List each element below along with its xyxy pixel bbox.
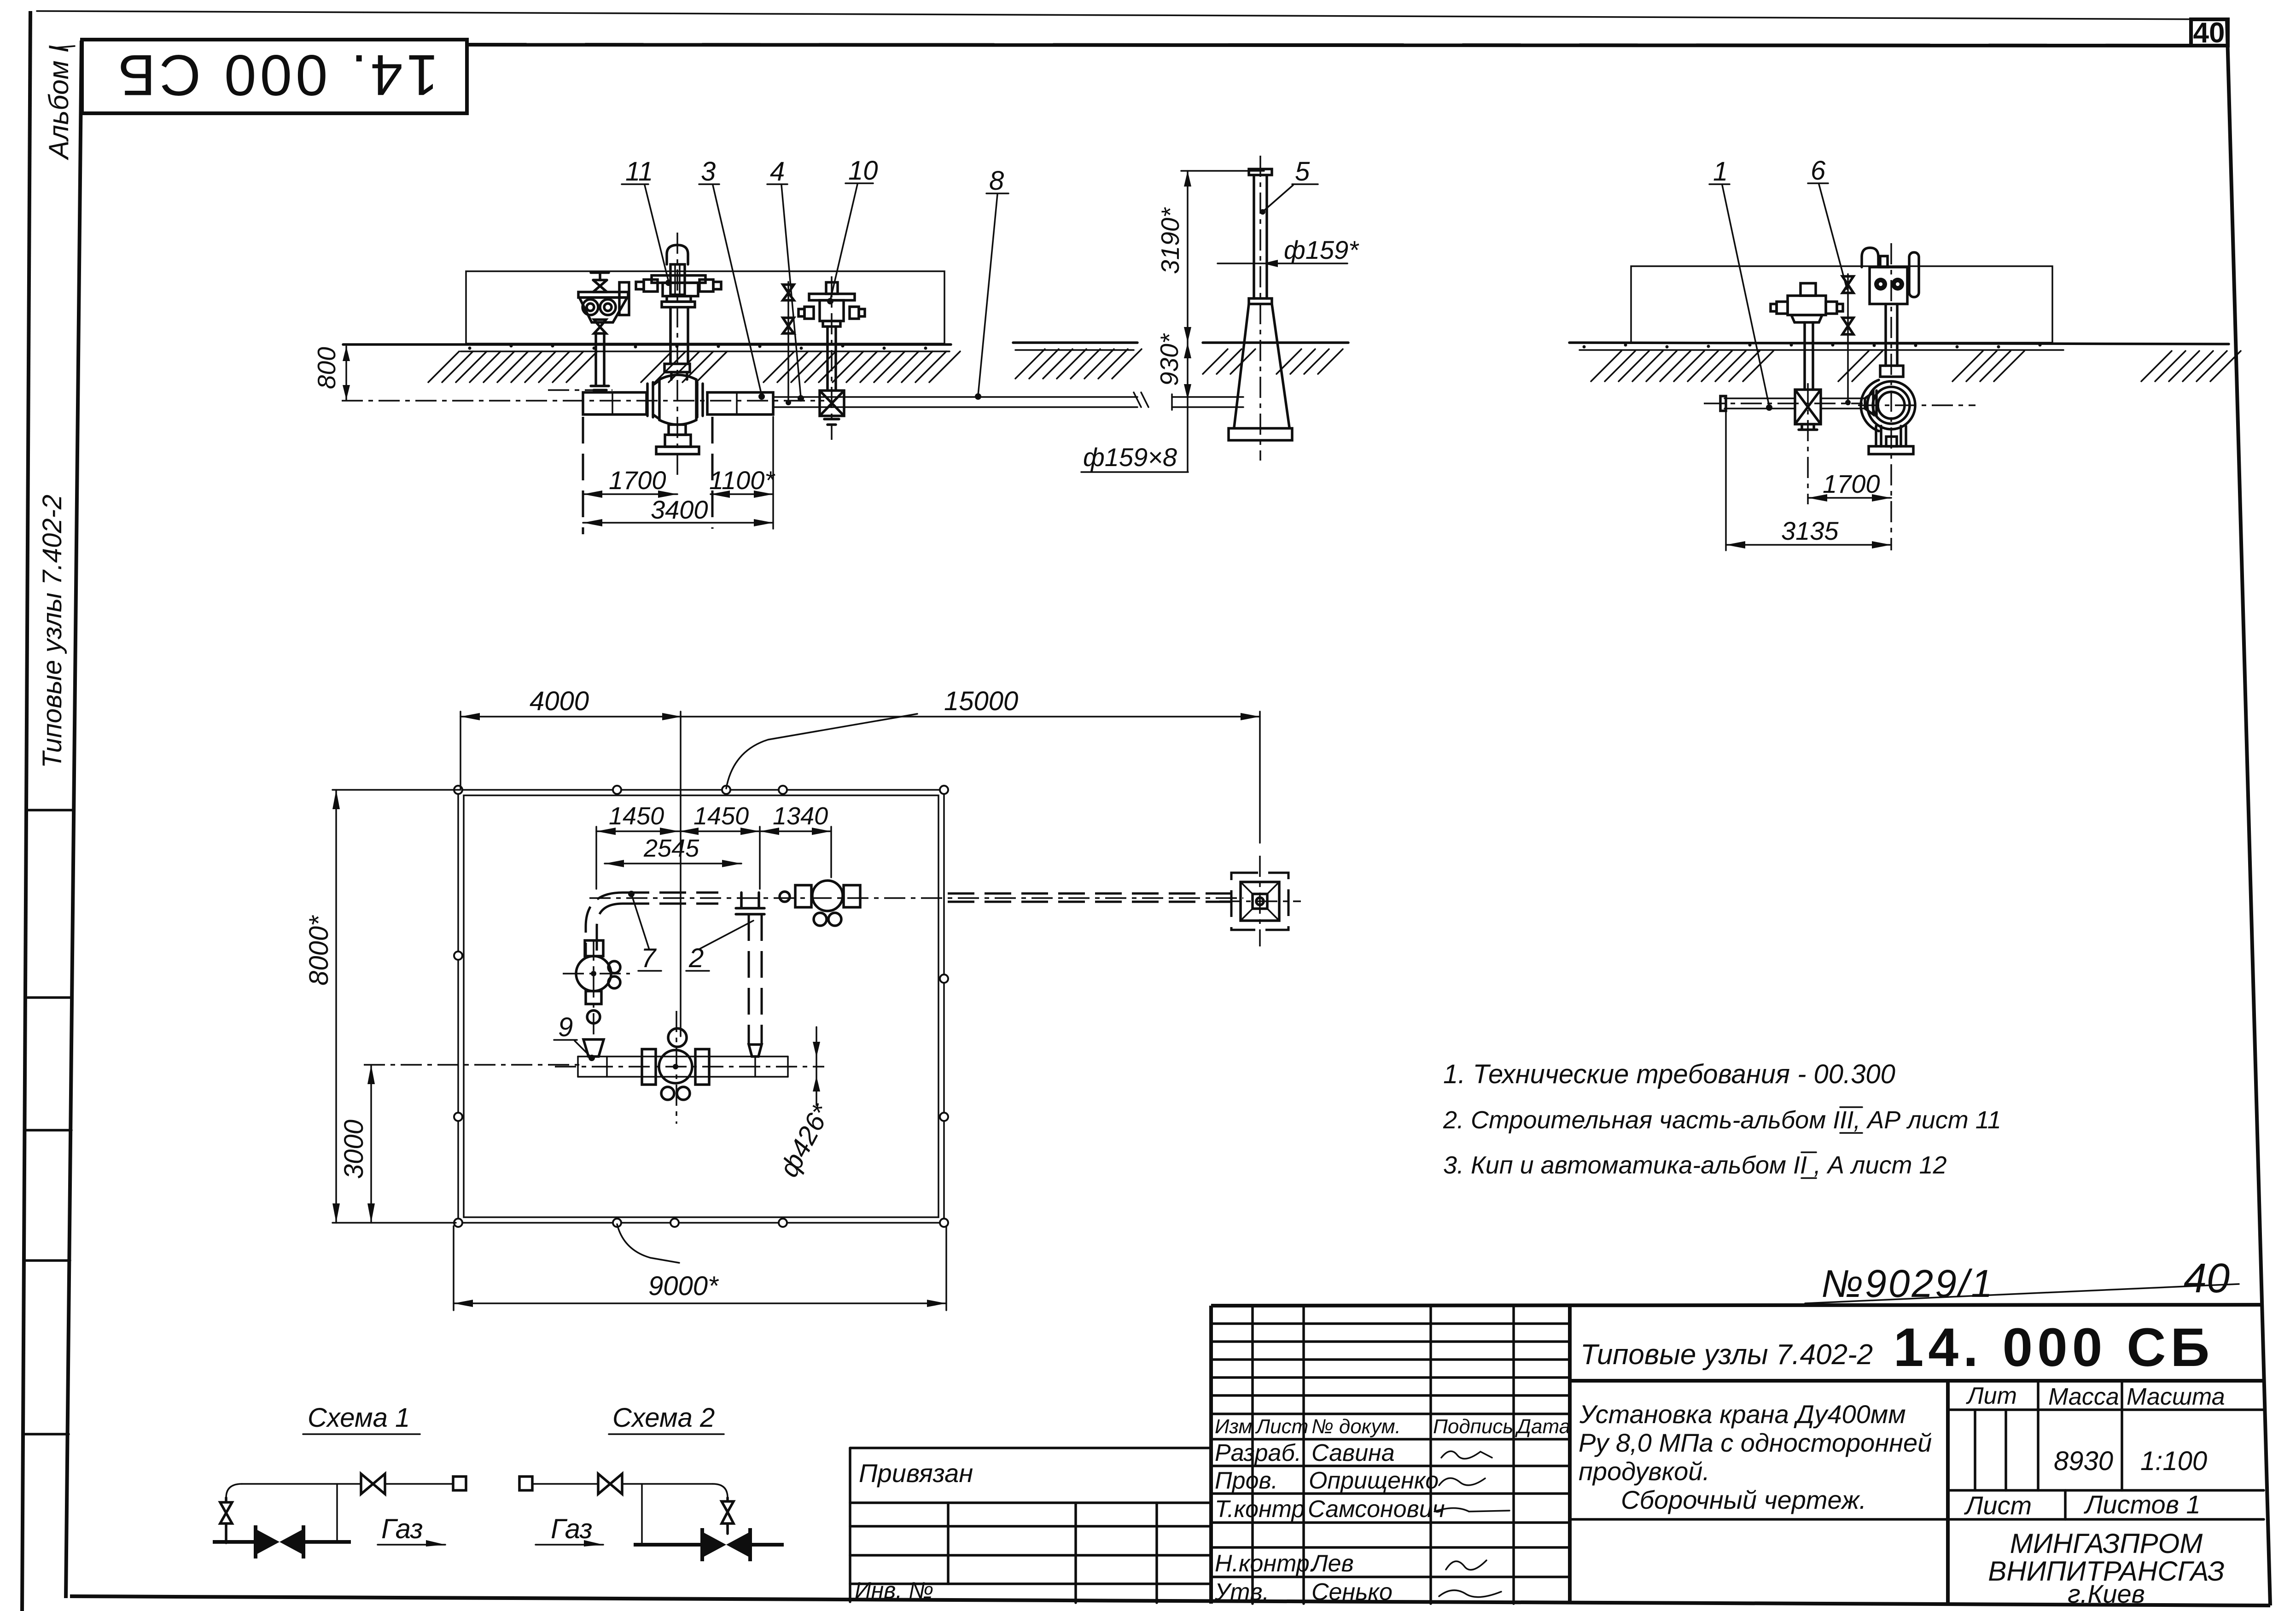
fence leader bottom	[617, 1224, 679, 1263]
centerline horizontal big valve	[1858, 404, 1975, 406]
dim 15000	[682, 716, 1260, 718]
central valve vertical centerline	[676, 1011, 677, 1124]
svg-text:Самсонович: Самсонович	[1308, 1496, 1445, 1523]
main line valve handwheel	[812, 881, 843, 911]
scheme2 bypass valve	[598, 1474, 622, 1494]
valve3 right body flange	[701, 384, 704, 416]
left unit stem pipe	[594, 333, 597, 385]
dimension 1100*	[711, 493, 773, 495]
big valve middle circle	[1873, 387, 1910, 424]
svg-text:1. Технические требования - 0: 1. Технические требования - 00.300	[1443, 1059, 1895, 1089]
ground hatch patch 2	[641, 351, 727, 382]
big valve crescent	[1861, 380, 1879, 431]
impulse line item4	[787, 282, 789, 403]
fence inner rectangle	[464, 795, 938, 1217]
item4 valve b	[783, 318, 794, 333]
main pipe left spool	[583, 392, 647, 414]
stack cap plate	[1249, 169, 1272, 175]
valve3 base plate	[656, 447, 699, 454]
left unit axis	[548, 389, 612, 391]
valve3 yoke bar	[652, 275, 705, 283]
left unit foot	[591, 386, 609, 390]
stack plan diagonals	[1241, 882, 1279, 921]
valve base plate	[1869, 446, 1913, 454]
STAMP BOX TOP LEFT	[82, 40, 467, 113]
svg-text:Н.контр.: Н.контр.	[1215, 1550, 1316, 1577]
valve3 neck	[670, 372, 673, 379]
svg-text:МИНГАЗПРОМ: МИНГАЗПРОМ	[2010, 1528, 2203, 1559]
witness line right of 1100	[772, 417, 774, 529]
svg-text:Оприщенко: Оприщенко	[1309, 1467, 1439, 1494]
witness line at cap level	[1181, 170, 1264, 172]
witness 4000 right / central valve axis	[680, 712, 682, 1036]
left unit side plate	[619, 282, 629, 315]
main line valve plan right body	[844, 885, 860, 907]
column to instrument	[1884, 304, 1887, 366]
dim f426 vertical	[816, 1027, 817, 1105]
slab texture dots left view	[468, 344, 927, 350]
svg-text:9000*: 9000*	[648, 1271, 719, 1301]
svg-text:2545: 2545	[643, 835, 699, 862]
title block left border	[1209, 1306, 1213, 1604]
instrument head	[1870, 267, 1907, 304]
valve3 drain body	[665, 435, 691, 447]
valve10 stem	[826, 327, 829, 389]
stack plan center square	[1253, 894, 1267, 909]
witness dashed left	[582, 417, 584, 534]
svg-text:Масса: Масса	[2048, 1383, 2119, 1410]
svg-text:г.Киев: г.Киев	[2068, 1579, 2145, 1608]
title block top border	[1211, 1305, 2262, 1306]
centerline vertical big valve	[1890, 243, 1892, 550]
svg-text:Инв. №: Инв. №	[855, 1577, 933, 1603]
valve10 right plug	[850, 307, 859, 319]
hatch patches right view	[1591, 351, 2241, 381]
svg-text:ф159*: ф159*	[1284, 235, 1359, 264]
valve3 splined stem	[670, 264, 685, 295]
hatch under ground stub	[1015, 349, 1142, 379]
scheme1 left vent valve	[220, 1498, 232, 1543]
svg-text:4: 4	[770, 157, 785, 187]
paper edge left line	[22, 11, 30, 1611]
pipe right segment	[1821, 397, 1865, 399]
svg-text:Альбом I: Альбом I	[43, 45, 74, 160]
scheme1 bypass top line	[242, 1483, 360, 1485]
valve stand legs	[1876, 426, 1906, 446]
SCHEMES	[213, 1403, 784, 1561]
cross tee body	[1795, 390, 1821, 424]
valve3 bonnet block	[663, 283, 698, 296]
building outline	[466, 271, 944, 344]
svg-text:Сенько: Сенько	[1311, 1579, 1393, 1605]
central valve plan handwheel	[659, 1050, 692, 1083]
privyazan sub-table lines	[850, 1501, 1211, 1504]
svg-text:Т.контр: Т.контр	[1215, 1496, 1305, 1523]
svg-text:Разраб.: Разраб.	[1215, 1440, 1301, 1466]
stack plan inner square	[1241, 882, 1279, 921]
margin cell divider 5	[25, 1433, 69, 1436]
svg-text:1450: 1450	[609, 802, 664, 830]
stack collar	[1249, 298, 1272, 304]
witness 15000 right	[1259, 712, 1261, 843]
svg-text:Установка крана Ду400мм: Установка крана Ду400мм	[1579, 1400, 1906, 1429]
left unit bracket	[578, 292, 628, 298]
valve10 top nut	[826, 282, 838, 294]
valve10 block	[820, 300, 844, 321]
VENT STACK VIEW	[1013, 156, 1359, 472]
svg-text:№ докум.: № докум.	[1311, 1415, 1401, 1438]
scheme2 right elbow	[713, 1484, 728, 1498]
lower header centerline	[555, 1066, 824, 1068]
svg-text:Утв.: Утв.	[1214, 1579, 1269, 1605]
ground line at stack	[1203, 341, 1348, 344]
ELEVATION VIEW RIGHT	[1569, 156, 2241, 550]
ground stub left	[1013, 341, 1137, 344]
valve9 plan stem rects	[585, 940, 603, 956]
svg-text:1:100: 1:100	[2140, 1446, 2207, 1476]
svg-text:Пров.: Пров.	[1215, 1467, 1278, 1494]
ELEVATION VIEW LEFT	[312, 156, 1137, 534]
blowdown valve body	[1788, 296, 1826, 315]
instrument capsule	[1909, 252, 1919, 297]
svg-text:Привязан: Привязан	[859, 1459, 973, 1488]
svg-text:Схема 1: Схема 1	[308, 1403, 410, 1433]
margin cell divider 4	[26, 1259, 70, 1262]
svg-text:8930: 8930	[2054, 1446, 2113, 1476]
NOTES	[1443, 1059, 2001, 1179]
dimension 800 vertical	[345, 346, 347, 400]
slab underside line	[460, 350, 950, 352]
svg-text:14. 000 СБ: 14. 000 СБ	[1894, 1317, 2214, 1378]
sheet number box top right	[2191, 19, 2228, 46]
central valve plan body left	[642, 1049, 656, 1085]
svg-text:1100*: 1100*	[709, 466, 775, 495]
scheme1 end square	[453, 1477, 466, 1490]
dim 8000 vertical	[335, 790, 337, 1223]
ground line right view	[1569, 343, 2229, 344]
privyazan box left	[849, 1448, 851, 1602]
dimension 1700 right view	[1808, 497, 1891, 499]
main pipe right spool	[707, 392, 773, 414]
main gas axis	[589, 897, 1243, 899]
svg-text:Подпись: Подпись	[1433, 1415, 1514, 1438]
witness lines for 1450 dims	[595, 827, 597, 889]
scheme2 line from square	[532, 1483, 598, 1485]
scheme2 vent valve	[722, 1498, 734, 1534]
svg-text:Сборочный чертеж.: Сборочный чертеж.	[1621, 1485, 1866, 1514]
svg-text:8000*: 8000*	[304, 915, 334, 986]
svg-text:Типовые узлы 7.402-2: Типовые узлы 7.402-2	[1580, 1339, 1873, 1371]
building outline right view	[1631, 266, 2052, 343]
stamp box outline	[82, 40, 467, 113]
pipe end cap	[1720, 396, 1726, 411]
dimension 3400	[583, 522, 773, 524]
dim 3000 vertical	[370, 1065, 372, 1223]
svg-text:9: 9	[558, 1012, 573, 1042]
stack plan outer dashed square	[1231, 873, 1288, 930]
dimension 1700	[583, 493, 677, 495]
svg-text:5: 5	[1295, 157, 1310, 187]
cross centerline vertical	[1807, 383, 1809, 504]
valve10 foot	[824, 419, 839, 425]
pipe from elbow to main axis	[623, 892, 718, 894]
branch wedge at header	[749, 1045, 762, 1056]
elbow pipe top left inner	[597, 904, 623, 957]
instrument dome	[1862, 248, 1878, 267]
svg-text:1700: 1700	[1823, 469, 1880, 498]
svg-text:3190*: 3190*	[1156, 207, 1184, 274]
valve10 body	[820, 391, 844, 416]
pipe left segment	[1725, 397, 1795, 399]
svg-text:800: 800	[312, 347, 341, 389]
svg-text:40: 40	[2184, 1255, 2230, 1302]
big valve inner circle	[1878, 392, 1905, 419]
svg-text:1: 1	[1713, 157, 1728, 187]
svg-text:1450: 1450	[693, 802, 749, 830]
valve3 mid flange	[664, 364, 690, 372]
witness 4000 left	[460, 712, 461, 788]
valve10 centerline	[831, 276, 833, 440]
svg-text:2. Строительная часть-альбом: 2. Строительная часть-альбом III, АР лис…	[1443, 1106, 2001, 1134]
witness dashed right	[711, 417, 714, 529]
scheme2 main line right	[750, 1543, 784, 1547]
scheme1 line to square	[385, 1483, 453, 1485]
fence leader top	[726, 714, 917, 788]
witness line 3135	[1725, 410, 1727, 550]
privyazan box top	[850, 1447, 1211, 1449]
scheme1 main line right	[303, 1540, 351, 1544]
svg-text:8: 8	[989, 166, 1004, 196]
fence outer rectangle	[458, 790, 944, 1223]
impulse line item6	[1847, 274, 1849, 403]
fence posts	[454, 786, 948, 1227]
pipe break marks	[1134, 392, 1148, 407]
valve9 centerlines	[563, 973, 630, 975]
valve3 left plug	[644, 280, 658, 292]
scheme1 bypass valve	[361, 1474, 385, 1494]
margin cell divider 1	[29, 809, 74, 811]
valve9 lower stem	[586, 991, 601, 1004]
frame right border	[2227, 19, 2270, 1605]
main line valve bolt circles	[814, 913, 827, 926]
central valve plan upper circle	[668, 1028, 687, 1047]
witness 8000 bottom	[332, 1222, 456, 1224]
dim 4000	[460, 716, 682, 718]
svg-text:4000: 4000	[530, 686, 589, 716]
left unit top valve	[593, 280, 607, 292]
valve3 flange lower	[662, 302, 695, 307]
small table grid rows	[1211, 1322, 1570, 1325]
valve9 small circle below	[587, 1010, 600, 1023]
branch tee at main line	[736, 893, 764, 914]
svg-text:Изм: Изм	[1215, 1415, 1253, 1438]
svg-text:Газ: Газ	[381, 1513, 423, 1544]
svg-text:ф159×8: ф159×8	[1083, 443, 1177, 472]
svg-text:3. Кип и автоматика-альбом I: 3. Кип и автоматика-альбом II , А лист 1…	[1443, 1151, 1947, 1179]
ground hatch patch 3	[763, 351, 960, 382]
frame bottom border	[70, 1596, 2270, 1605]
LEFT MARGIN	[25, 45, 75, 1434]
PLAN VIEW	[304, 686, 1301, 1310]
svg-text:Лев: Лев	[1310, 1550, 1354, 1577]
valve3 right plug	[699, 280, 713, 292]
svg-text:3135: 3135	[1781, 516, 1839, 545]
svg-text:14. 000 СБ: 14. 000 СБ	[114, 43, 438, 107]
central valve plan body right	[695, 1049, 709, 1085]
small circle left on axis	[780, 892, 790, 902]
svg-text:930*: 930*	[1155, 333, 1183, 386]
lit massa masshtab	[2037, 1381, 2040, 1490]
underline of roman I	[54, 46, 75, 48]
blowdown pipe stub into cone	[1172, 396, 1243, 398]
valve3 left body flange	[646, 384, 649, 416]
ground line	[343, 343, 951, 346]
witness 9000 right	[945, 1226, 947, 1310]
svg-text:Савина: Савина	[1311, 1440, 1395, 1466]
valve3 drain neck	[669, 425, 686, 435]
scheme1 tee vertical	[336, 1484, 338, 1542]
svg-text:Типовые узлы 7.402-2: Типовые узлы 7.402-2	[37, 495, 67, 768]
left unit gauge 1	[583, 299, 598, 315]
long blowdown pipe to stack	[948, 893, 1230, 895]
frame top border	[466, 45, 2191, 46]
valve9 wedge to header	[583, 1039, 604, 1056]
valve9 side bolt circles	[608, 961, 620, 973]
blowdown valve top nut	[1801, 283, 1816, 296]
stack hatch left	[1203, 349, 1255, 374]
right section vertical	[1946, 1381, 1950, 1604]
blowdown valve right plug	[1826, 302, 1837, 314]
svg-text:6: 6	[1811, 156, 1826, 186]
margin cell divider 3	[27, 1129, 71, 1132]
valve10 yoke	[809, 294, 855, 300]
svg-text:Схема 2: Схема 2	[612, 1403, 715, 1433]
stack hatch right	[1276, 349, 1343, 374]
blowdown valve left plug	[1777, 302, 1788, 314]
valve10 left plug	[804, 307, 814, 319]
svg-text:Лит: Лит	[1966, 1383, 2017, 1409]
scheme1 left elbow	[226, 1484, 242, 1498]
svg-text:40: 40	[2193, 17, 2225, 49]
witness 8000 top	[332, 789, 460, 791]
svg-text:15000: 15000	[944, 686, 1018, 716]
svg-text:продувкой.: продувкой.	[1579, 1457, 1710, 1486]
stack plan centerlines	[1259, 856, 1261, 946]
paper edge top line	[37, 11, 2228, 19]
stack cone	[1234, 304, 1249, 427]
witness 9000 left	[453, 1226, 455, 1310]
left unit lower valve	[594, 320, 606, 333]
svg-text:Лист: Лист	[1964, 1491, 2032, 1520]
central valve bolt circles	[661, 1087, 674, 1100]
slab texture dots right view	[1583, 344, 2042, 349]
svg-text:Лист: Лист	[1255, 1415, 1308, 1438]
dim 3190/930 vertical line	[1187, 171, 1189, 471]
list listov row	[2064, 1490, 2067, 1519]
svg-text:3400: 3400	[651, 495, 708, 524]
margin cell divider 2	[28, 996, 72, 999]
valve3 stem column	[669, 307, 672, 364]
main line valve plan left body	[795, 885, 811, 907]
blowdown valve stem	[1803, 322, 1806, 390]
dimension 3135	[1726, 544, 1891, 546]
pipe axis dash-dot	[342, 400, 824, 402]
pipe centerline	[1704, 403, 1863, 404]
left unit T handle	[591, 273, 609, 280]
TITLE BLOCK	[850, 1255, 2264, 1608]
left unit gauge 2	[600, 299, 616, 315]
svg-text:1700: 1700	[609, 466, 666, 495]
slab underside right view	[1579, 349, 2063, 351]
svg-text:Дата: Дата	[1515, 1415, 1570, 1438]
left unit body trapezoid	[579, 298, 627, 322]
valve3 centerline vertical	[676, 233, 678, 479]
ground hatch patch 1	[428, 351, 597, 382]
svg-text:3: 3	[701, 157, 716, 187]
scheme2 start square	[519, 1477, 532, 1490]
item6 valve b	[1842, 318, 1853, 334]
svg-text:11: 11	[625, 157, 653, 187]
small table vertical lines	[1251, 1306, 1254, 1604]
scheme2 main valve filled	[702, 1532, 726, 1558]
scheme2 main line left	[634, 1543, 702, 1547]
cross foot	[1799, 424, 1817, 430]
valve3 dome top	[667, 245, 688, 264]
svg-text:1340: 1340	[773, 802, 828, 830]
scheme2 tee vertical	[641, 1484, 643, 1545]
blowdown pipe to stack	[773, 396, 1137, 398]
valve10 flange	[823, 321, 840, 327]
svg-text:Листов 1: Листов 1	[2084, 1490, 2201, 1519]
stack base	[1229, 428, 1292, 440]
svg-text:10: 10	[848, 156, 878, 186]
svg-text:3000: 3000	[339, 1120, 369, 1179]
item4 junction dot	[786, 400, 791, 405]
elbow pipe top left outer	[586, 893, 623, 957]
dim 2545	[605, 863, 741, 864]
branch dashed pipe vertical	[748, 914, 750, 1045]
inlet cone to big valve	[1865, 392, 1873, 414]
svg-text:Масшта: Масшта	[2127, 1383, 2225, 1410]
item4 valve a	[783, 285, 794, 300]
valve3 body	[659, 375, 696, 425]
dim 1450 1450 1340	[596, 830, 831, 832]
item6 valve a	[1842, 276, 1853, 293]
stack riser pipe	[1253, 175, 1255, 298]
stack centerline	[1259, 156, 1261, 461]
witness 3000 top dashdot	[364, 1064, 580, 1066]
scheme1 main line left	[213, 1540, 256, 1544]
lower header pipe	[578, 1056, 788, 1057]
svg-text:Газ: Газ	[551, 1513, 593, 1544]
valve3 flange upper	[667, 296, 691, 302]
scheme1 main valve filled	[256, 1529, 280, 1555]
frame left border	[66, 41, 82, 1598]
big valve outer circle	[1867, 381, 1915, 429]
instrument neck	[1880, 256, 1888, 267]
svg-text:Ру 8,0 МПа с односторонней: Ру 8,0 МПа с односторонней	[1579, 1428, 1932, 1457]
dim 9000 bottom	[454, 1302, 946, 1304]
big valve top flange	[1880, 366, 1903, 377]
valve9 plan handwheel	[576, 956, 611, 991]
scheme2 bypass line right	[622, 1483, 713, 1485]
